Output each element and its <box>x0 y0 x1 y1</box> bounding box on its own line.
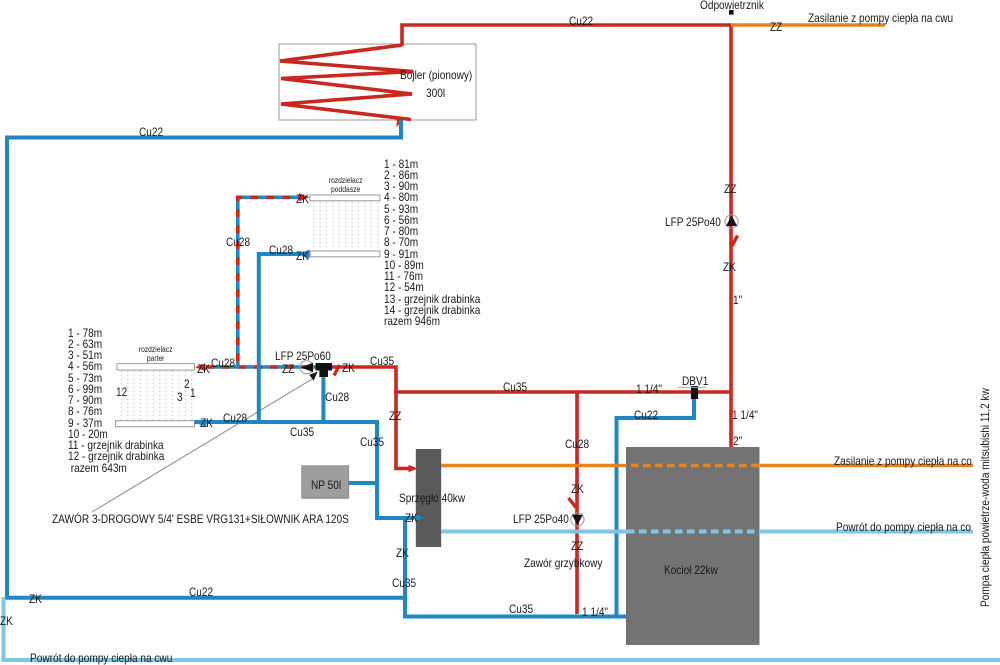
DBV1 underline <box>678 386 706 388</box>
label Cu22 top <box>569 15 593 27</box>
wire blue under boiler Cu22 <box>7 120 405 598</box>
label NP 50l <box>311 479 341 491</box>
label Sprzeglo 40kw <box>399 492 465 504</box>
label Kociol 22kw <box>664 564 718 576</box>
label Cu22 DBV1 branch <box>634 409 658 421</box>
label Zasilanie z pompy ciepla na co <box>834 455 972 467</box>
light blue return co to sprzeglo <box>441 530 973 534</box>
label zawor 3-drogowy note <box>52 513 349 525</box>
list poddasze loops <box>384 159 480 328</box>
label loop number 3 <box>177 391 183 403</box>
label DBV1 <box>682 375 708 387</box>
label Cu35 bottom <box>509 603 533 615</box>
pump LFP 25Po40 riser triangle <box>726 215 737 226</box>
wire blue from poddasze manifold Cu28 <box>259 254 300 422</box>
pump LFP 25Po60: circle <box>300 361 313 374</box>
label Cu35 below return <box>290 426 314 438</box>
label Bojler (pionowy) <box>400 69 472 81</box>
label Cu35 mid red <box>503 381 527 393</box>
label ZZ red downpipe <box>389 410 401 422</box>
red arrow into poddasze upper bar <box>299 193 310 201</box>
valve tick ZK on riser <box>732 236 738 247</box>
kociol 22kw body <box>626 447 760 645</box>
boiler heating coil <box>280 45 413 120</box>
label ZK parter supply <box>197 363 210 375</box>
label Powrot do pompy ciepla na co <box>836 521 971 533</box>
label ZK poddasze return <box>296 250 309 262</box>
label ZK poddasze supply <box>296 193 309 205</box>
label loop number 12 <box>116 386 127 398</box>
label Cu35 after valve <box>370 355 394 367</box>
wire blue stem of 3-way valve <box>321 375 325 422</box>
label Cu28 parter supply <box>211 357 235 369</box>
label LFP 25Po60 <box>275 350 331 362</box>
3-way valve stem <box>319 371 328 378</box>
label ZK grzybkowy branch <box>571 483 584 495</box>
leader line to 3-way valve <box>92 379 313 513</box>
label Cu35 downpipe <box>392 577 416 589</box>
label ZK downpipe <box>396 547 409 559</box>
rozdzielacz poddasze upper bar <box>310 195 380 201</box>
blue arrow at parter lower bar <box>196 419 207 427</box>
label 300l <box>426 87 445 99</box>
light blue return cwu bottom <box>4 597 1000 660</box>
valve tick ZK right of 3-way valve <box>334 365 340 376</box>
valve tick ZK on branch <box>569 498 577 508</box>
label ZK bottom long <box>29 593 42 605</box>
dashed red-blue horizontal to parter manifold <box>206 365 316 369</box>
label Cu28 poddasze return <box>269 244 293 256</box>
label ZZ riser <box>724 183 736 195</box>
coil end arrowhead <box>396 118 403 128</box>
DBV1 valve body <box>691 386 698 399</box>
label 2 inch <box>733 435 742 447</box>
odpowietrznik vent symbol <box>729 10 734 15</box>
3-way valve body <box>316 363 333 371</box>
label Cu28 valve stem <box>325 391 349 403</box>
rozdzielacz poddasze loop dotted lines <box>314 202 378 250</box>
blue arrow into sprzeglo <box>415 514 424 522</box>
wire red mid horizontal Cu35 <box>394 390 731 394</box>
pump LFP 25Po40 on riser: circle <box>725 215 738 228</box>
wire blue Cu22 from DBV1 to kociol <box>617 398 695 616</box>
pump LFP 25Po40 on branch: circle <box>571 513 584 526</box>
rozdzielacz parter upper bar <box>117 364 195 371</box>
label ZZ before 3-way pump <box>282 363 294 375</box>
label 1 1/4 before DBV1 <box>636 383 662 395</box>
label rozdzielacz parter <box>138 346 173 363</box>
label LFP 25Po40 branch pump <box>513 513 569 525</box>
wire red from 3-way valve to corner <box>332 367 414 469</box>
label Powrot do pompy ciepla na cwu <box>30 652 172 664</box>
label ZK sprzeglo inlet <box>405 512 418 524</box>
orange supply co from sprzeglo <box>441 464 973 468</box>
pump LFP 25Po60 triangle <box>301 363 313 372</box>
boiler tank Bojler (pionowy) 300l <box>279 44 476 120</box>
wire red main riser ZZ <box>729 25 733 447</box>
pump LFP 25Po40 branch triangle <box>572 515 583 525</box>
label 1 1/4 bottom <box>582 606 608 618</box>
leader arrowhead <box>309 372 317 381</box>
label Cu28 dashed riser <box>226 236 250 248</box>
label ZZ grzybkowy <box>571 540 583 552</box>
label Cu22 boiler return <box>139 126 163 138</box>
wire blue branch down to kociol <box>405 518 626 617</box>
label Zasilanie z pompy ciepla na cwu <box>808 12 953 24</box>
wire red branch to zawor grzybkowy <box>575 392 579 614</box>
rozdzielacz poddasze lower bar <box>310 251 380 257</box>
label Cu22 bottom long <box>189 586 213 598</box>
label ZK light blue left <box>0 615 13 627</box>
dashed red-blue riser to poddasze manifold <box>238 197 303 367</box>
NP 50l tank body <box>302 466 349 498</box>
wire red supply top from boiler to riser Cu22 <box>402 25 731 46</box>
label Cu28 parter return <box>223 412 247 424</box>
label LFP 25Po40 riser pump <box>665 216 721 228</box>
label Cu35 at downpipe <box>360 436 384 448</box>
label Odpowietrznik <box>700 0 764 11</box>
label Cu28 grzybkowy branch <box>565 438 589 450</box>
label ZK after 3-way valve <box>342 362 355 374</box>
sprzeglo 40kw body <box>416 449 441 547</box>
label loop number 1 <box>190 387 196 399</box>
label rozdzielacz poddasze <box>328 177 363 194</box>
label loop number 2 <box>184 378 190 390</box>
rozdzielacz parter lower bar <box>116 421 195 427</box>
orange supply cwu top ZZ <box>731 23 885 26</box>
red arrow into parter upper bar <box>195 363 206 371</box>
label Pompa ciepla vertical <box>979 388 991 607</box>
label 1 1/4 riser lower <box>732 409 758 421</box>
label ZK parter return <box>200 417 213 429</box>
label ZZ top orange <box>770 21 782 33</box>
label Zawor grzybkowy <box>524 557 602 569</box>
label ZK riser <box>723 261 736 273</box>
wire blue NP 50l connector <box>349 481 377 485</box>
blue arrow out of poddasze lower bar <box>297 250 310 259</box>
rozdzielacz parter loop dotted lines <box>121 371 191 420</box>
red arrow into sprzeglo <box>409 465 418 473</box>
wire blue from parter manifold Cu28 <box>195 422 415 518</box>
list parter loops <box>68 328 164 474</box>
label 1 inch riser <box>733 294 742 306</box>
